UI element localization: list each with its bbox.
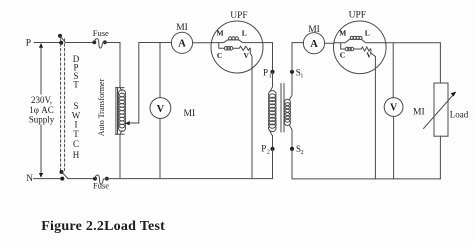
node S2 (290, 144, 304, 156)
wire S1 riser to A2 (292, 43, 303, 72)
wire A2 to wattmeter W2 (325, 42, 335, 44)
W1 current coil M-L (211, 37, 263, 43)
bottom bus left: N to switch (34, 178, 63, 180)
svg-text:T: T (73, 79, 79, 89)
svg-text:UPF: UPF (230, 11, 247, 21)
bottom bus: fuse to P2 (107, 178, 273, 180)
auto transformer label (97, 78, 106, 136)
svg-text:230V,: 230V, (31, 95, 52, 105)
node P1 (263, 67, 275, 79)
wire A1 to wattmeter W1 (193, 42, 212, 44)
svg-text:MI: MI (176, 23, 188, 33)
DPST dashed pole lines (60, 39, 62, 171)
W2 voltage terminal wire down to bottom bus (374, 57, 376, 179)
svg-text:P: P (26, 39, 31, 49)
svg-text:1φ AC: 1φ AC (29, 105, 53, 115)
wire W2 to load corner (386, 43, 440, 83)
svg-text:MI: MI (184, 109, 196, 119)
svg-text:M: M (339, 29, 346, 38)
fuse F2 (93, 175, 109, 191)
ammeter A2 MI (303, 25, 324, 54)
voltmeter V1 MI (150, 98, 195, 120)
supply label 230V 1phi AC Supply (28, 95, 56, 125)
svg-text:Figure 2.2Load Test: Figure 2.2Load Test (41, 219, 165, 234)
node P2 (261, 144, 274, 156)
svg-text:V: V (390, 103, 398, 114)
svg-text:Auto Transformer: Auto Transformer (97, 78, 106, 136)
svg-text:A: A (310, 39, 318, 50)
svg-text:V: V (157, 104, 165, 115)
autotransformer wiper arrow to top wire (125, 43, 172, 126)
right bottom bus: S2 to load (292, 178, 440, 180)
svg-text:P: P (263, 67, 268, 77)
wattmeter W2 circle UPF (334, 11, 387, 74)
svg-text:MI: MI (413, 108, 425, 118)
voltmeter V2 riser (392, 43, 394, 98)
auto transformer T1 (116, 88, 126, 135)
fuse F1 (93, 28, 110, 48)
wire load bottom to bottom bus (439, 136, 441, 179)
svg-text:2: 2 (301, 150, 304, 156)
load rheostat (424, 83, 469, 136)
wire S2 to right bottom bus (291, 149, 293, 179)
W1 labels M L (216, 28, 246, 37)
W2 labels C V (340, 50, 373, 59)
DPST switch top pole (58, 34, 65, 45)
svg-text:Load: Load (450, 110, 469, 120)
node S1 (290, 67, 304, 79)
W1 voltage terminal wire down to bottom bus (251, 57, 253, 179)
voltmeter V2 MI (384, 98, 424, 118)
svg-text:C: C (73, 139, 79, 149)
voltmeter V1 riser (159, 43, 161, 98)
svg-text:V: V (243, 51, 249, 60)
transformer primary winding (269, 72, 277, 149)
svg-text:L: L (365, 29, 370, 38)
svg-text:Fuse: Fuse (93, 28, 109, 38)
svg-text:V: V (366, 50, 372, 59)
svg-text:T: T (73, 129, 79, 139)
svg-text:MI: MI (308, 25, 320, 35)
terminal N (26, 174, 33, 184)
svg-text:A: A (178, 39, 186, 50)
svg-text:M: M (216, 28, 223, 37)
AC supply line with arrows (39, 43, 43, 178)
transformer core (281, 84, 284, 133)
svg-text:UPF: UPF (349, 11, 366, 21)
DPST SWITCH label (72, 54, 81, 160)
wattmeter W1 circle UPF (211, 11, 263, 73)
transformer secondary winding (284, 72, 292, 149)
wire P to switch (34, 42, 61, 44)
DPST switch bottom pole (60, 170, 69, 181)
svg-text:1: 1 (269, 73, 272, 79)
W2 pressure coil branch (341, 43, 376, 57)
svg-text:2: 2 (267, 150, 270, 156)
wire fuse to autotransformer (105, 43, 120, 88)
svg-text:H: H (73, 150, 80, 160)
W2 current coil M-L (334, 36, 386, 42)
wire V2 to right bottom bus (393, 116, 395, 178)
svg-text:1: 1 (300, 73, 303, 79)
svg-text:Fuse: Fuse (93, 181, 109, 191)
svg-text:Supply: Supply (29, 114, 55, 124)
wire autotransformer bottom to bottom bus (119, 134, 121, 178)
svg-text:N: N (26, 174, 33, 184)
wire V1 to bottom bus (159, 118, 161, 178)
W1 pressure coil branch (219, 43, 252, 57)
wire switch to fuse (65, 42, 94, 44)
ammeter A1 MI (171, 23, 192, 54)
W1 labels C V (217, 51, 250, 60)
W2 labels M L (339, 29, 369, 38)
svg-text:C: C (217, 51, 222, 60)
wire P2 to bottom bus (272, 149, 274, 179)
bottom bus: switch to fuse (68, 178, 96, 180)
terminal P (26, 39, 31, 49)
wire W1 to P1 (263, 43, 273, 72)
svg-text:P: P (261, 144, 266, 154)
svg-text:L: L (242, 28, 247, 37)
svg-text:C: C (340, 50, 345, 59)
